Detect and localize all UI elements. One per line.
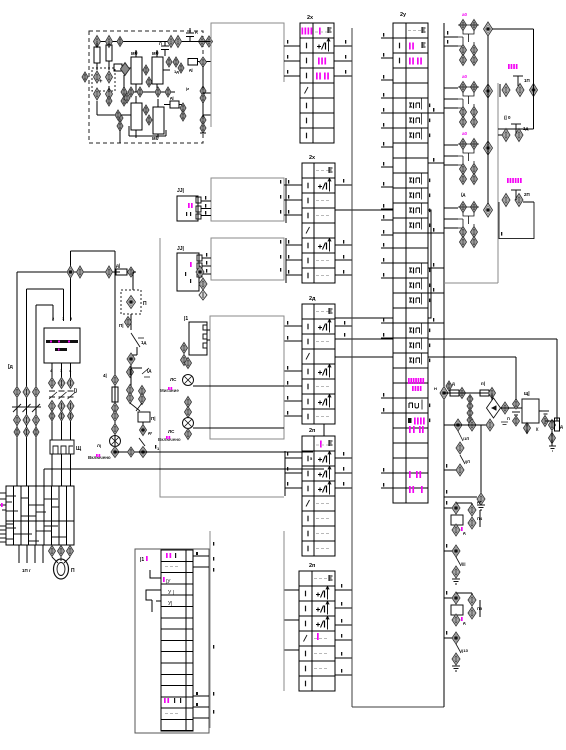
- PSU right wire: [539, 410, 545, 412]
- svg-text:[д: [д: [8, 364, 14, 370]
- diamond below coil: [140, 425, 147, 436]
- diamond after R7: [459, 388, 466, 399]
- wire chain segment: [444, 392, 492, 394]
- diamonds below PSU: [524, 423, 531, 434]
- wire L2 horizontal run: [27, 288, 64, 290]
- wires X6 to C3: [444, 144, 458, 146]
- svg-text:\1П: \1П: [463, 436, 469, 441]
- output diamond C4: [484, 203, 493, 217]
- extra diamonds lower A1: [106, 96, 112, 106]
- svg-text:2п: 2п: [309, 428, 315, 434]
- svg-text:|1: |1: [140, 557, 144, 563]
- diamonds below SB1: [125, 317, 132, 328]
- cluster output link bus: [487, 36, 489, 204]
- indicator lamp HL1 diamonds top: [185, 358, 192, 369]
- switch x11 junction: [452, 545, 460, 557]
- contact column П5: [468, 594, 476, 606]
- dark junction diamond cluster: [121, 63, 130, 76]
- bracket X2 left: [285, 178, 287, 223]
- relay K3: [131, 103, 142, 130]
- wire to start button branch: [114, 251, 116, 272]
- wires Щ to terminal strip: [51, 454, 53, 486]
- wires X3 left: [284, 325, 302, 327]
- svg-text:(д: (д: [147, 368, 151, 373]
- right edge ticks X6 marked rows: [429, 104, 430, 108]
- ground below x11: [452, 579, 460, 584]
- relay K4: [153, 107, 164, 134]
- svg-text:2х: 2х: [309, 155, 316, 161]
- terminal diamonds on A1 top bus: [94, 36, 101, 48]
- svg-text:д|: д|: [189, 67, 193, 72]
- diamond below P5: [452, 614, 460, 626]
- cable duct G2 around XP1: [211, 178, 284, 221]
- connector XP1 body: [177, 196, 198, 221]
- wires KM1 to connector: [51, 412, 53, 440]
- relay coil P4: [451, 515, 463, 525]
- svg-text:а0: а0: [462, 131, 468, 136]
- diamond column right: [549, 420, 556, 431]
- contactor KM1 bottom diamonds: [49, 401, 56, 412]
- svg-text:дг: дг: [148, 430, 153, 435]
- wire HL2 right: [193, 427, 284, 429]
- svg-text:1д: 1д: [141, 340, 147, 345]
- bracket right of П4 column: [479, 510, 481, 527]
- bottom loop wire of A1: [128, 126, 130, 136]
- main bus right of X6: [443, 23, 445, 707]
- contact group C3 link wires: [452, 144, 479, 166]
- controller text row2: [55, 348, 67, 351]
- diamond right on branch: [486, 419, 494, 431]
- wires X4 left: [285, 457, 302, 459]
- power supply unit dashed enclosure A1: [89, 31, 203, 143]
- svg-text:П: П: [159, 41, 162, 46]
- svg-text:П: П: [507, 416, 510, 421]
- bracket X4 left: [284, 451, 286, 496]
- switch х10 contact 1: [458, 431, 463, 441]
- wires XP2 pins to duct: [202, 257, 211, 259]
- wire bottom rail junction diamond: [128, 447, 135, 457]
- indicator lamp HL2 diamonds: [185, 397, 192, 408]
- wires G1 to X1 terminal block: [284, 45, 300, 47]
- switch x13 junction: [452, 632, 460, 644]
- diamond below P4: [452, 524, 460, 536]
- ground symbol right chain: [549, 446, 556, 451]
- connector Щ body: [50, 440, 74, 454]
- wires G3 to X3: [280, 240, 281, 244]
- wire R3 to right edge: [198, 61, 212, 63]
- contact group C4 top diamonds: [460, 202, 467, 213]
- wire L1 run to resistor: [106, 266, 113, 278]
- svg-text:ЛС: ЛС: [168, 429, 175, 434]
- svg-text:дг: дг: [477, 499, 482, 504]
- wires X4 right: [335, 457, 352, 459]
- svg-text:У |: У |: [168, 590, 174, 596]
- contactor KM1 contacts: [49, 391, 74, 397]
- svg-text:2у: 2у: [400, 12, 407, 18]
- switch х10 contact 2: [460, 455, 465, 464]
- contact K2.1: [142, 368, 150, 377]
- output diamond C3: [484, 141, 493, 155]
- wire from strip to B1 bottom area: [44, 468, 324, 470]
- diamonds right of R4 fork: [180, 103, 186, 113]
- svg-text:м0: м0: [131, 51, 138, 57]
- cable duct G5 right of B2: [209, 531, 211, 728]
- wire coil down: [142, 422, 144, 426]
- wires X6 right stubs: [428, 112, 444, 114]
- dense magenta block X6 row25: [408, 378, 424, 384]
- wire relay K2 to capacitor: [163, 69, 170, 71]
- capacitor CB1 left of PSU: [513, 399, 520, 409]
- svg-text:Д: Д: [560, 424, 563, 429]
- relay contact K5 with T: [502, 84, 510, 97]
- wire PSU to bus bottom: [526, 423, 528, 434]
- svg-text:П: П: [71, 568, 75, 574]
- right mini branch: [130, 365, 132, 386]
- wire P5 contact link: [456, 592, 472, 594]
- terminal block X1: [300, 23, 334, 143]
- controller text row1: [46, 340, 78, 343]
- relay K2: [152, 57, 163, 84]
- junction diamond on bus below chain: [454, 419, 462, 431]
- svg-text:2п: 2п: [309, 563, 315, 569]
- svg-text:а0: а0: [462, 12, 468, 17]
- XP1 magenta marks: [188, 203, 193, 208]
- diamond after R5: [128, 267, 135, 277]
- terminal strip left pigtails: [0, 493, 6, 542]
- svg-text:а0: а0: [462, 74, 468, 79]
- wire from A1.1 to relay K1: [108, 86, 110, 92]
- diamonds between relays: [143, 65, 149, 75]
- wires X6 left stubs: [381, 37, 393, 39]
- diamonds lower left branch: [117, 113, 123, 123]
- rectifier bridge VD1: [487, 398, 501, 418]
- svg-text:2х: 2х: [307, 15, 314, 21]
- wire K1 bottom bus: [131, 91, 175, 93]
- svg-text:\|||: \|||: [461, 561, 465, 566]
- breaker QF1 contacts: [13, 404, 40, 412]
- svg-text:П: П: [143, 301, 147, 307]
- start button SB1 diamond: [127, 296, 136, 309]
- diamonds on mid bus: [128, 87, 134, 97]
- contact group C1 top diamonds: [460, 20, 467, 31]
- diamonds around K3: [124, 93, 130, 103]
- wire down from contact: [136, 347, 138, 355]
- contact to bottom rail: [139, 438, 145, 446]
- enclosure B3 left edge: [351, 28, 353, 707]
- relay coil P5 junction diamond: [452, 592, 460, 604]
- contact group C4 link wires: [452, 207, 479, 229]
- svg-text:П|: П|: [151, 416, 156, 421]
- svg-text:2д: 2д: [309, 296, 316, 302]
- phase wire L3 vertical: [35, 305, 37, 486]
- indicator lamp HL2: [183, 418, 194, 429]
- relay coil P1 box: [138, 412, 150, 422]
- contactor KM1 top diamonds: [49, 378, 56, 389]
- svg-text:ЈЈ|: ЈЈ|: [177, 246, 185, 252]
- wires X6 to C4: [444, 207, 458, 209]
- terminal block X6: [393, 23, 428, 503]
- resistor R2: [106, 45, 112, 61]
- relay pin stubs A1: [135, 50, 137, 57]
- contact group C3 bottom diamonds: [460, 164, 467, 175]
- wire P4 contact link: [456, 502, 472, 504]
- wire top bus of A1: [97, 41, 204, 43]
- contact group C1 link wires: [452, 25, 479, 47]
- right branch diamonds: [139, 386, 146, 397]
- diamond column right edge lower: [200, 115, 206, 125]
- cable duct G3 around XP2: [211, 238, 284, 280]
- resistor R8: [480, 390, 489, 396]
- magenta mark at strip left: [1, 503, 3, 507]
- svg-text:ЛС: ЛС: [170, 377, 177, 382]
- ladder left rail: [114, 272, 116, 452]
- svg-text:(| 0: (| 0: [504, 115, 511, 120]
- wires X2 right: [335, 184, 352, 186]
- X7 right stubs: [193, 555, 209, 557]
- wire L3 horizontal run: [36, 304, 53, 306]
- extra diamond row under QF1: [14, 427, 20, 437]
- bracket right of П5 column: [479, 600, 481, 617]
- phase wire L2 vertical: [26, 289, 28, 486]
- diamonds below XP3: [181, 343, 188, 354]
- wire K7 to frame: [523, 201, 534, 203]
- wire drop to controller pin 1: [63, 289, 65, 321]
- cable duct G1: [211, 23, 284, 127]
- svg-text:(д: (д: [461, 192, 465, 197]
- diamond pair below junction: [127, 367, 134, 378]
- wire A1 exit lower pair: [203, 92, 211, 94]
- svg-text:д: д: [452, 381, 455, 386]
- terminal block X2: [302, 163, 335, 283]
- wire SB1 down: [130, 314, 132, 330]
- extra diamond row under KM1: [49, 411, 55, 421]
- terminal block X7: [161, 550, 193, 731]
- svg-text:\|1З: \|1З: [461, 648, 468, 653]
- magenta marks X1 row1 left cell: [302, 28, 313, 35]
- resistor R1: [94, 47, 100, 63]
- capacitor C3 top: [186, 32, 194, 34]
- wire chain right nodes: [545, 420, 560, 422]
- vertical feeder to controller: [70, 251, 72, 321]
- relay coil P4 junction diamond: [452, 502, 460, 514]
- X7 left bend wires: [146, 570, 161, 612]
- svg-text:П5: П5: [477, 606, 483, 611]
- ground chain diamond: [477, 493, 485, 505]
- terminal block X5: [299, 571, 335, 691]
- connector XP2 body: [177, 253, 199, 291]
- XP2 magenta mark: [190, 262, 192, 267]
- equipment enclosure B1: [160, 238, 284, 497]
- switch x13 lower diamond: [452, 653, 460, 665]
- svg-text:П|: П|: [119, 323, 124, 328]
- capacitor C1 region diamonds: [168, 36, 175, 48]
- G5 ticks: [213, 542, 214, 546]
- XP2 pin contacts: [197, 255, 202, 261]
- contact group C2 bottom diamonds: [460, 107, 467, 118]
- wire bridge to PSU: [501, 407, 523, 409]
- resistor R5 on L1 run: [116, 269, 127, 275]
- svg-text:м0: м0: [152, 51, 159, 57]
- terminal strip X0: [6, 486, 74, 545]
- inductor coil vertical: [467, 395, 473, 404]
- wire down to start button: [132, 272, 134, 290]
- svg-text:|z: |z: [186, 86, 189, 91]
- svg-text:ЈЈ|: ЈЈ|: [177, 188, 185, 194]
- crossing wires to coil: [130, 403, 142, 411]
- switch x11 lower diamond: [452, 566, 460, 578]
- output diamond C1: [484, 22, 493, 36]
- wires X3 right: [335, 325, 352, 327]
- rail bottom dark diamond: [111, 447, 119, 458]
- ground bar right edge: [200, 132, 206, 134]
- wires XP1 pins to duct: [201, 200, 211, 202]
- wires X5 right to B3 edge: [335, 589, 352, 591]
- long wire X3 row3 to right column: [335, 338, 557, 340]
- contact group C4 bottom diamonds: [460, 227, 467, 238]
- cable duct G4 around indicator lamps: [210, 316, 284, 439]
- PSU module: [522, 399, 539, 423]
- magenta marks X6 row28: [409, 426, 415, 433]
- wire capacitor up: [515, 357, 517, 400]
- XP3 pins: [203, 325, 207, 330]
- wires X1 right to bus: [334, 45, 352, 47]
- frame wire right of C1: [533, 29, 535, 129]
- wire right edge vertical: [202, 66, 204, 88]
- svg-text:У|: У|: [168, 601, 172, 607]
- svg-text:1д: 1д: [174, 69, 179, 74]
- svg-text:щ|: щ|: [524, 391, 530, 397]
- frame box below K7: [499, 202, 534, 239]
- indicator lamp HL3: [110, 436, 121, 447]
- rail junction dark diamond: [139, 447, 147, 458]
- magenta marks X6 row32: [409, 486, 414, 493]
- svg-text:Н: Н: [434, 386, 437, 391]
- diamond cluster right of relay K2: [166, 57, 172, 67]
- terminal strip internal jumpers: [6, 496, 66, 541]
- diamonds below junction cluster: [121, 87, 127, 97]
- svg-text:д|: д|: [116, 263, 120, 268]
- diamond below R9: [549, 433, 556, 444]
- indicator lamp HL1: [183, 375, 194, 386]
- XP1 pin contacts: [196, 197, 201, 203]
- ground symbol below branch: [477, 505, 485, 510]
- relay coil P4 wire: [444, 507, 452, 509]
- wire X2 row3 to V1 rectifier loop: [324, 210, 431, 497]
- long wire X3 row4 to capacitor branch: [335, 356, 516, 358]
- motor feed wires: [52, 557, 70, 563]
- relay K1: [131, 57, 142, 84]
- svg-text:Щ: Щ: [76, 446, 82, 452]
- relay contact K6 with T: [502, 129, 510, 142]
- diamond chain below XP2: [196, 266, 204, 278]
- svg-text:\|П: \|П: [465, 459, 470, 464]
- wires X5 left: [284, 589, 299, 591]
- wire right vertical from X3 row: [556, 339, 558, 421]
- phase wire L1 vertical: [16, 272, 18, 486]
- wire C1 to right frame: [492, 28, 534, 30]
- rail diamonds below R6: [112, 403, 119, 414]
- resistor R9 vertical: [555, 418, 560, 431]
- resistor R3 horizontal: [188, 59, 198, 66]
- label magenta above K5: [508, 64, 518, 69]
- wires below strip hanging: [18, 545, 20, 563]
- wires G2 to X2: [284, 184, 286, 186]
- svg-text:4|: 4|: [103, 373, 107, 378]
- wires X2 left: [286, 184, 302, 186]
- terminal block X3: [302, 304, 335, 424]
- svg-text:П4: П4: [477, 516, 483, 521]
- diamonds below A1.1: [94, 88, 101, 100]
- X7 row marks: [166, 553, 171, 558]
- switch x11 contact: [456, 557, 461, 566]
- relay coil P5 wire: [444, 597, 452, 599]
- relay contact K7 with T: [502, 194, 510, 207]
- motor M1: [54, 559, 69, 579]
- svg-text:1П г: 1П г: [22, 568, 31, 573]
- wire XP3 to G4: [207, 329, 210, 331]
- wire HL1 to G4 edge: [193, 385, 284, 387]
- wire K4 to R4: [164, 104, 170, 106]
- inner dashed sub-box A1.1: [92, 68, 115, 91]
- relay coil P5: [451, 605, 463, 615]
- controller bottom pins: [51, 363, 53, 378]
- resistor R6 on rail: [112, 387, 118, 402]
- wire branch down to ground: [480, 425, 482, 493]
- resistor R7: [446, 381, 452, 391]
- capacitor C2 plates: [161, 45, 169, 47]
- diamond pair in A1.1: [94, 71, 101, 83]
- extra wire in A1: [96, 101, 98, 115]
- svg-text:|1: |1: [184, 316, 188, 322]
- ladder rail diamonds: [112, 375, 119, 386]
- controller unit A2: [44, 328, 80, 363]
- magenta marks X6 row31: [409, 471, 411, 478]
- small coupling box: [114, 64, 122, 71]
- junction diamond mid ladder: [127, 353, 135, 365]
- capacitor CB2: [542, 416, 549, 427]
- diamond after R8: [489, 388, 496, 399]
- label magenta above K7: [507, 178, 522, 183]
- svg-text:1П: 1П: [524, 78, 530, 83]
- contact group C3 top diamonds: [460, 139, 467, 150]
- node diamonds at A1 right exit upper: [199, 36, 206, 47]
- wires QF1 to terminal strip: [16, 425, 18, 486]
- contact group C2 link wires: [452, 87, 479, 109]
- switch x13 contact: [456, 644, 461, 653]
- enclosure B3 bottom edge: [352, 706, 444, 708]
- chain junction diamonds at bus: [440, 387, 448, 400]
- wire L1 horizontal run: [17, 271, 120, 273]
- switch х10 diamond: [456, 442, 464, 454]
- equipment box B2: [135, 549, 209, 733]
- ground below x13: [452, 666, 460, 671]
- motor feed diamonds: [49, 546, 56, 557]
- junction diamonds on L1 run: [67, 266, 74, 278]
- breaker QF1 bottom diamonds: [14, 415, 21, 426]
- svg-text:п|: п|: [481, 381, 485, 386]
- diamonds below HL2: [185, 429, 192, 440]
- wires X6 to C2: [444, 87, 458, 89]
- svg-text:1д: 1д: [523, 126, 529, 131]
- connector XP3 body: [189, 322, 207, 355]
- diamond column right edge upper: [200, 86, 206, 96]
- horizontal wire to ladder rail: [71, 250, 116, 252]
- contact group C2 top diamonds: [460, 82, 467, 93]
- magenta mark X5 row5: [317, 633, 319, 640]
- wire exit upper: [193, 41, 211, 43]
- wire drop to controller pin 2: [52, 305, 54, 321]
- contact column П4: [468, 504, 476, 516]
